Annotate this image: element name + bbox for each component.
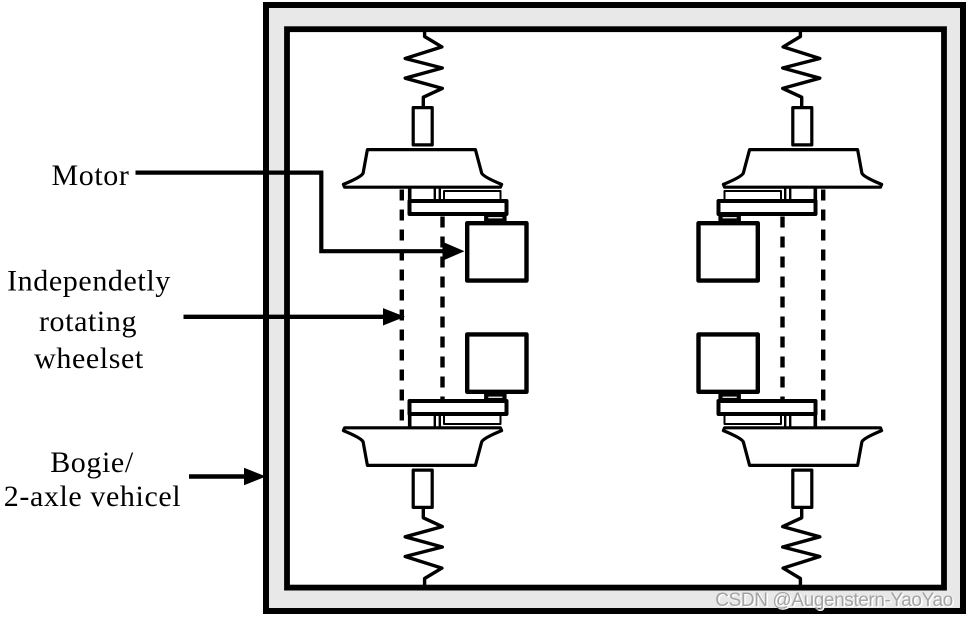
motor bracket (rear-right) <box>721 395 739 401</box>
wheelset label arrowhead <box>383 308 405 325</box>
thin mounting plate (rear-left) <box>444 415 501 424</box>
right wheelset axle dashed line (left edge) <box>780 217 784 400</box>
axle stub (front-left) <box>434 188 436 201</box>
axlebox piston rod (rear-right) <box>793 470 812 507</box>
bogie frame inner wall <box>287 29 944 587</box>
svg-text:CSDN @Augenstern-YaoYao: CSDN @Augenstern-YaoYao <box>715 590 953 611</box>
spring (suspension, rear-left) <box>405 508 442 588</box>
Motor label arrowhead <box>443 242 465 261</box>
axlebox piston rod (front-left) <box>413 108 432 145</box>
svg-text:Motor: Motor <box>52 159 130 192</box>
traction motor (rear-left) <box>467 334 526 391</box>
thin mounting plate (front-right) <box>725 191 782 200</box>
wheel (front-right) <box>723 150 881 188</box>
motor mounting bar (front-left) <box>410 201 507 214</box>
axle stub (rear-left) <box>434 415 436 428</box>
frame link (rear-left) <box>408 415 412 428</box>
motor bracket (front-left) <box>486 215 504 221</box>
axle stub (front-right) <box>789 188 791 201</box>
motor bracket (front-right) <box>721 215 739 221</box>
right wheelset axle dashed line (right edge) <box>821 190 825 426</box>
left wheelset axle dashed line (right edge) <box>440 217 444 400</box>
spring (suspension, rear-right) <box>783 508 820 588</box>
thin mounting plate (front-left) <box>444 191 501 200</box>
wheel (rear-right) <box>723 428 881 466</box>
wheelset label leader line <box>184 315 386 319</box>
axlebox piston rod (rear-left) <box>413 470 432 507</box>
svg-text:Bogie/: Bogie/ <box>50 446 134 479</box>
traction motor (front-right) <box>699 223 758 280</box>
motor mounting bar (rear-right) <box>719 401 816 414</box>
traction motor (rear-right) <box>699 334 758 391</box>
spring (suspension, front-right) <box>783 28 820 108</box>
thin mounting plate (rear-right) <box>725 415 782 424</box>
svg-text:rotating: rotating <box>39 305 137 338</box>
svg-text:2-axle vehicel: 2-axle vehicel <box>4 480 181 513</box>
motor mounting bar (rear-left) <box>410 401 507 414</box>
frame link (front-right) <box>813 187 817 200</box>
wheel (front-left) <box>343 150 501 188</box>
Bogie label leader line <box>189 474 246 478</box>
bogie frame outer wall <box>266 5 963 611</box>
Motor label leader line <box>136 173 445 252</box>
motor mounting bar (front-right) <box>719 201 816 214</box>
Bogie label arrowhead <box>244 468 266 485</box>
traction motor (front-left) <box>467 223 526 280</box>
spring (suspension, front-left) <box>405 28 442 108</box>
axlebox piston rod (front-right) <box>793 108 812 145</box>
wheel (rear-left) <box>343 428 501 466</box>
frame link (front-left) <box>408 187 412 200</box>
frame link (rear-right) <box>813 415 817 428</box>
axle stub (rear-right) <box>789 415 791 428</box>
svg-text:Independetly: Independetly <box>7 265 171 298</box>
motor bracket (rear-left) <box>486 395 504 401</box>
svg-text:wheelset: wheelset <box>34 342 144 375</box>
left wheelset axle dashed line (left edge) <box>400 190 404 426</box>
